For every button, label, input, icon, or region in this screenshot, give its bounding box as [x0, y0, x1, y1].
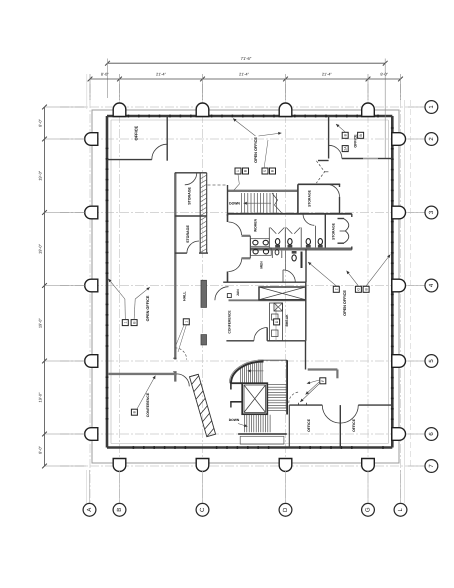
- offices top wall east seg: [358, 404, 392, 406]
- svg-text:A: A: [86, 508, 93, 512]
- column grid B/7: [113, 459, 126, 472]
- grid bubble 5: [408, 355, 438, 368]
- offices top wall west seg: [289, 404, 322, 406]
- storage E door leaf lower: [344, 231, 349, 243]
- grid line 6: [60, 433, 425, 435]
- exterior wall top: [107, 115, 392, 118]
- svg-text:JAN: JAN: [236, 289, 240, 296]
- svg-text:8′-0″: 8′-0″: [38, 446, 43, 454]
- conference BL door arc: [177, 374, 190, 387]
- storage1 north wall: [175, 172, 207, 174]
- svg-text:WOMEN: WOMEN: [254, 218, 258, 232]
- column grid L/2: [392, 133, 406, 146]
- column grid B/1: [113, 103, 126, 117]
- grid line L: [400, 84, 402, 503]
- column grid D/7: [279, 459, 292, 472]
- grid line D: [285, 84, 287, 503]
- ramp hatched band: [190, 374, 216, 436]
- grid line 5: [60, 360, 425, 362]
- column grid D/1: [279, 103, 292, 116]
- grid line B: [119, 84, 121, 503]
- column grid G/7: [362, 459, 375, 472]
- storage mid west wall: [297, 184, 299, 213]
- dashed door arc office: [289, 392, 300, 403]
- column grid C/7: [196, 459, 209, 472]
- svg-text:1: 1: [236, 170, 240, 172]
- canopy extension lines right: [404, 100, 406, 470]
- exterior wall left: [106, 116, 109, 448]
- grid bubble 7: [408, 460, 438, 473]
- grid bubble L: [394, 470, 407, 516]
- grid line 3: [60, 212, 425, 214]
- svg-text:G: G: [357, 288, 361, 291]
- elevator bottom inner: [244, 385, 266, 412]
- men basins: [253, 249, 258, 254]
- column grid A/6: [85, 428, 98, 441]
- grid line 1: [60, 106, 425, 108]
- grid line C: [202, 84, 204, 503]
- curved stair treads: [241, 362, 262, 384]
- stub wall west of curve: [230, 382, 242, 384]
- svg-text:OPEN OFFICE: OPEN OFFICE: [146, 295, 150, 321]
- offices double door arcs: [322, 405, 340, 423]
- office west wall: [288, 405, 290, 447]
- break counter: [270, 303, 283, 341]
- women stall doors: [270, 228, 276, 234]
- dashed double door west of office: [316, 161, 324, 183]
- stair right run treads: [267, 385, 287, 411]
- men toilet: [292, 255, 296, 261]
- stair north wall: [228, 190, 298, 192]
- column grid A/4: [85, 279, 98, 292]
- leaders bottom offices: [300, 384, 319, 402]
- vestibule alcove bottom wall: [242, 257, 251, 259]
- exterior wall inner face lines: [110, 120, 112, 444]
- leader open office to top wall: [233, 119, 256, 137]
- L wall vertical: [336, 370, 338, 379]
- svg-text:STORAGE: STORAGE: [332, 222, 336, 239]
- office top-left wall east: [166, 116, 168, 161]
- storage E door apex tick: [340, 230, 346, 232]
- open office east wall lower: [174, 372, 176, 382]
- restroom plumbing wall: [250, 248, 351, 251]
- dimension line overall 71ft6: [108, 62, 386, 64]
- men urinal: [275, 250, 279, 255]
- stair north edge line: [258, 359, 287, 361]
- svg-text:8′-0″: 8′-0″: [101, 72, 109, 77]
- canopy outline: [92, 110, 399, 463]
- down arrow bottom: [238, 424, 248, 428]
- elevator X: [259, 287, 306, 300]
- stair direction arrow: [248, 369, 264, 372]
- offices center wall: [339, 405, 341, 447]
- jan door arc: [215, 287, 229, 301]
- leader office top-right: [336, 124, 345, 132]
- column grid A/5: [85, 355, 98, 368]
- leader open office to right: [259, 132, 282, 136]
- wall gap jamb lower: [173, 371, 176, 373]
- column grid C/1: [196, 103, 209, 116]
- hall east wall chunk 2: [201, 335, 207, 345]
- door tag jan: [227, 294, 231, 298]
- storage E door leaf upper: [344, 219, 349, 231]
- stair treads top core: [242, 193, 277, 213]
- break lower west wall: [305, 341, 307, 370]
- elevator bottom X: [244, 385, 266, 412]
- restroom west wall upper: [227, 214, 229, 222]
- svg-text:STORAGE: STORAGE: [308, 189, 312, 206]
- wall y158 office strip west: [342, 158, 363, 160]
- women basins: [253, 240, 258, 245]
- svg-text:8′-0″: 8′-0″: [38, 119, 43, 127]
- door jamb marks office: [298, 403, 300, 406]
- open office east wall door jambs: [173, 357, 176, 359]
- women stall partitions: [268, 228, 270, 248]
- core long wall y213.8: [228, 213, 352, 215]
- svg-text:B: B: [116, 508, 123, 512]
- open office east wall upper: [174, 173, 176, 360]
- dimension line left vertical: [44, 107, 46, 466]
- svg-text:CONFERENCE: CONFERENCE: [146, 392, 150, 417]
- svg-text:DOWN: DOWN: [229, 202, 240, 206]
- wall y158 office strip east: [378, 158, 392, 160]
- svg-text:F: F: [321, 380, 325, 382]
- storage divider wall: [175, 215, 207, 217]
- office top-right door arc: [329, 145, 342, 158]
- storage mid east wall lower: [339, 197, 341, 214]
- svg-text:19′-0″: 19′-0″: [38, 170, 43, 181]
- elevator bottom shaft: [242, 383, 267, 414]
- svg-text:2: 2: [335, 288, 339, 290]
- tag leader lines: [234, 174, 240, 190]
- svg-text:STORAGE: STORAGE: [186, 225, 190, 243]
- landing rect: [240, 436, 284, 444]
- svg-text:OFFICE: OFFICE: [352, 418, 356, 431]
- svg-text:DOWN: DOWN: [229, 418, 240, 422]
- elevator bank middle: [259, 287, 306, 300]
- wall y434: [238, 433, 287, 435]
- svg-text:OFFICE: OFFICE: [307, 418, 311, 431]
- break west wall stub: [266, 328, 268, 341]
- men east wall: [305, 249, 307, 282]
- vestibule alcove top wall: [242, 235, 251, 237]
- grid line 7: [60, 465, 425, 467]
- leader right open office east: [366, 255, 390, 286]
- counter appliance: [272, 330, 279, 337]
- stair down arrow: [244, 202, 272, 205]
- restroom east wall: [324, 214, 326, 250]
- office top-left door arc: [152, 144, 167, 159]
- grid line 4: [60, 285, 425, 287]
- tag bottom offices: [320, 378, 326, 384]
- dim extension A pair: [86, 74, 88, 109]
- svg-text:HALL: HALL: [183, 291, 187, 301]
- svg-text:21′-4″: 21′-4″: [156, 72, 167, 77]
- svg-text:1: 1: [124, 322, 128, 324]
- curved stair outer wall: [231, 362, 264, 384]
- column grid A/2: [85, 133, 98, 146]
- column grid L/3: [392, 206, 406, 219]
- curved stair outer thin arc: [229, 360, 263, 383]
- window mullion ticks: [106, 115, 394, 449]
- column grid G/1: [362, 103, 375, 116]
- storage2 door arc: [187, 241, 199, 253]
- stub wall west vertical: [230, 383, 232, 389]
- wall y300: [229, 299, 306, 301]
- stub wall lower-left vertical: [230, 402, 232, 408]
- counter tag D: [274, 319, 280, 325]
- stair break line: [272, 193, 282, 213]
- grid bubble D: [279, 470, 292, 516]
- column grid A/3: [85, 206, 98, 219]
- svg-text:OPEN OFFICE: OPEN OFFICE: [343, 290, 347, 316]
- hall east wall chunk 1: [201, 280, 207, 307]
- svg-text:19′-0″: 19′-0″: [38, 392, 43, 403]
- dim extension ticks drop: [90, 74, 401, 100]
- corridor door dashes: [208, 184, 227, 186]
- open office east wall dashed door arc: [175, 348, 187, 360]
- tag hall: [183, 319, 189, 325]
- svg-text:STORAGE: STORAGE: [187, 186, 191, 204]
- men lav counter: [251, 248, 272, 255]
- wall stub y160.5: [318, 160, 329, 162]
- grid bubble C: [196, 470, 209, 516]
- storage E door head stub top: [338, 218, 345, 220]
- grid bubble B: [113, 470, 126, 516]
- office top-left wall south: [107, 159, 152, 161]
- svg-text:71′-6″: 71′-6″: [241, 56, 252, 61]
- counter X box: [274, 303, 283, 311]
- storage E east wall corner top: [351, 214, 353, 217]
- men entry door arc: [283, 270, 295, 282]
- svg-text:OFFICE: OFFICE: [133, 125, 138, 140]
- conference mid south wall: [226, 340, 254, 342]
- svg-text:5: 5: [263, 170, 267, 172]
- hall hatched wall: [200, 173, 207, 253]
- svg-text:2A: 2A: [343, 146, 347, 151]
- dim extension lines left: [45, 107, 87, 466]
- men urinal partitions: [271, 251, 273, 258]
- tag boxes office top-right: [342, 132, 348, 138]
- grid bubble 1: [408, 101, 438, 114]
- hall tag leaders: [178, 325, 186, 352]
- stub wall lower-left horizontal: [230, 401, 242, 403]
- extension line pair above bubble A: [86, 470, 88, 503]
- break south wall: [267, 340, 305, 342]
- grid bubble 4: [408, 279, 438, 292]
- storage mid east wall upper: [339, 184, 341, 187]
- conference BL north wall: [108, 373, 176, 375]
- svg-text:OPEN OFFICE: OPEN OFFICE: [254, 137, 258, 163]
- svg-text:21′-4″: 21′-4″: [322, 72, 333, 77]
- bottom run treads: [245, 415, 271, 433]
- women toilets: [275, 239, 322, 248]
- restroom south wall: [223, 281, 306, 283]
- column grid L/4: [392, 279, 406, 292]
- women entry door arc: [303, 214, 314, 226]
- leader right open office mid: [347, 271, 359, 286]
- svg-text:G: G: [364, 507, 371, 512]
- grid line 2: [60, 138, 425, 140]
- svg-text:21′-4″: 21′-4″: [239, 72, 250, 77]
- svg-text:8′-0″: 8′-0″: [380, 72, 388, 77]
- stair east wall bottom core: [286, 360, 288, 414]
- break east wall: [305, 282, 307, 341]
- women lav counter: [251, 239, 270, 247]
- svg-text:D: D: [282, 507, 289, 512]
- vestibule alcove east wall: [249, 236, 251, 258]
- grid bubble 3: [408, 206, 438, 219]
- wall y158 glazing: [363, 158, 378, 160]
- dim extension line x385: [384, 59, 386, 159]
- restroom west wall lower: [227, 272, 229, 283]
- tags right open office: [333, 286, 339, 292]
- grid bubble 2: [408, 133, 438, 146]
- counter sink: [272, 314, 279, 320]
- svg-text:19′-0″: 19′-0″: [38, 318, 43, 329]
- storage1 door arc: [185, 173, 197, 185]
- exterior wall bottom: [107, 446, 392, 449]
- leader left open office 2: [134, 299, 135, 320]
- extension line pair above bubble L: [404, 470, 406, 503]
- storage E east wall corner bottom: [351, 247, 353, 250]
- grid bubble 6: [408, 428, 438, 441]
- grid bubble A: [83, 470, 96, 516]
- leader right open office west: [308, 262, 336, 286]
- men entry door leaf: [282, 270, 284, 282]
- storage mid door arc: [327, 184, 340, 197]
- tag row top core: [235, 168, 241, 174]
- grid line A: [89, 84, 91, 503]
- exterior wall right: [391, 116, 394, 448]
- svg-text:MEN: MEN: [260, 261, 264, 269]
- leader conference BL: [137, 376, 155, 409]
- men accessible stall wall: [301, 252, 303, 269]
- grid bubble G: [362, 470, 375, 516]
- svg-text:OFFICE: OFFICE: [354, 134, 358, 148]
- svg-text:1: 1: [185, 321, 189, 323]
- column grid L/5: [392, 355, 406, 368]
- storage mid north wall: [298, 183, 340, 185]
- L wall horizontal: [308, 368, 338, 370]
- stair west wall: [227, 185, 229, 216]
- storage E door head stub bottom: [338, 242, 345, 244]
- dimension line top segments: [90, 78, 401, 80]
- tag conference BL: [131, 409, 137, 415]
- office top-right west wall: [328, 116, 330, 159]
- storage2 south wall w/ door: [175, 252, 187, 254]
- tags left open office: [122, 320, 128, 326]
- dashed door apex tick: [325, 171, 329, 173]
- svg-text:BREAK: BREAK: [285, 314, 289, 327]
- grid line G: [367, 84, 369, 503]
- dim extension line left: [107, 59, 109, 99]
- leader left open office 1: [124, 299, 126, 320]
- vestibule door arc upper: [229, 222, 242, 235]
- svg-text:C: C: [199, 507, 206, 512]
- svg-text:19′-0″: 19′-0″: [38, 243, 43, 254]
- men stall partition: [285, 251, 287, 270]
- column grid L/6: [392, 428, 406, 441]
- svg-text:CONFERENCE: CONFERENCE: [227, 310, 231, 334]
- vestibule door arc lower: [229, 258, 242, 271]
- conference mid door arc SE: [254, 328, 267, 341]
